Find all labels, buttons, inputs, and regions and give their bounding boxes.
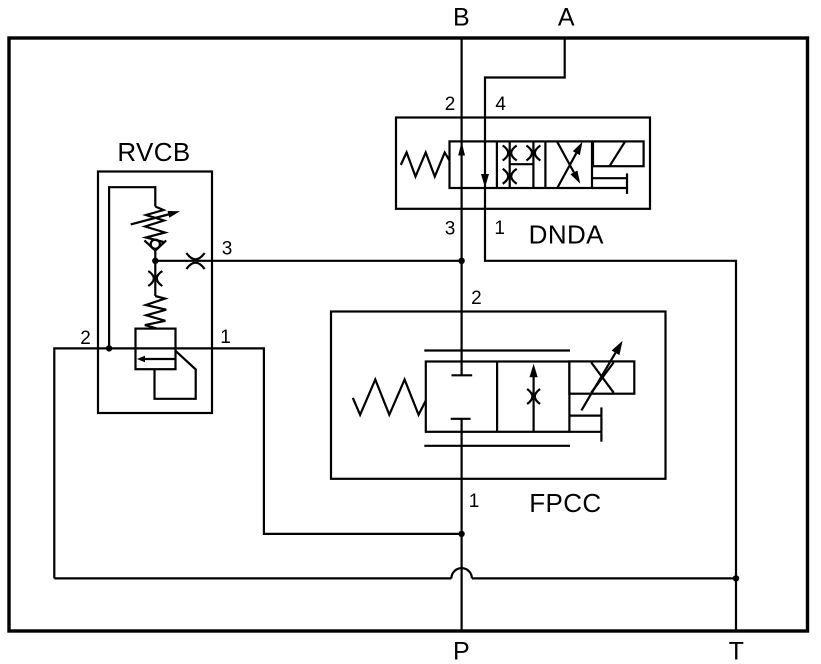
RVCB enclosure box	[98, 172, 212, 414]
svg-text:RVCB: RVCB	[117, 137, 190, 167]
arrow adjustment through spring	[131, 211, 180, 224]
orifice top left	[503, 146, 517, 161]
wire bridge crossover over P line	[451, 568, 472, 578]
valve square RVCB	[136, 329, 176, 370]
wire tank line right segment	[472, 577, 736, 579]
pilot control box	[569, 361, 634, 393]
pilot connector line	[569, 415, 601, 417]
svg-text:DNDA: DNDA	[529, 220, 605, 250]
solenoid connector bottom line	[592, 187, 627, 189]
crossed arrow ascending	[558, 142, 583, 188]
svg-text:P: P	[453, 637, 470, 664]
wire B to P vertical (upper segment)	[461, 38, 463, 375]
wire P vertical (lower segment)	[461, 419, 463, 631]
solenoid box	[593, 141, 644, 166]
flow path line left	[509, 141, 511, 188]
node junction RVCB port 2	[106, 345, 112, 351]
valve body FPCC	[426, 362, 570, 432]
orifice on wire 3	[186, 253, 204, 269]
ball check	[151, 240, 160, 249]
arrow up on B line	[458, 142, 465, 156]
flow path with arrow up	[530, 364, 538, 432]
svg-text:2: 2	[80, 328, 91, 349]
spring relief adjustable	[145, 207, 165, 243]
RVCB pilot wire L	[109, 187, 155, 348]
divider position 2	[544, 141, 546, 188]
svg-text:4: 4	[495, 94, 506, 115]
blocked port top bar	[452, 374, 473, 376]
svg-text:2: 2	[471, 288, 482, 309]
node junction on P line	[458, 531, 464, 537]
svg-text:1: 1	[220, 327, 231, 348]
proportional line top	[424, 349, 570, 351]
svg-text:3: 3	[222, 239, 233, 260]
wire A down through DNDA to T	[485, 38, 736, 631]
spring DNDA	[401, 152, 450, 176]
svg-text:1: 1	[469, 491, 480, 512]
solenoid diagonal	[610, 141, 626, 166]
orifice bottom left	[503, 169, 517, 184]
svg-text:FPCC: FPCC	[529, 488, 601, 518]
svg-text:1: 1	[494, 218, 505, 239]
divider FPCC	[496, 362, 498, 432]
svg-text:2: 2	[445, 94, 456, 115]
svg-text:A: A	[558, 4, 575, 32]
crossed lines in pilot box	[591, 362, 614, 392]
svg-text:T: T	[729, 637, 744, 664]
arrow down on A line	[481, 174, 489, 188]
spring above valve square	[145, 296, 166, 329]
orifice on flow path	[527, 389, 540, 404]
svg-text:B: B	[453, 4, 470, 32]
node junction on T line	[733, 575, 739, 581]
divider position 1	[496, 141, 498, 188]
orifice on pilot branch	[148, 271, 162, 286]
FPCC enclosure box	[331, 312, 666, 479]
solenoid connector pin bar	[626, 173, 628, 194]
pilot connector pin bar	[600, 407, 602, 441]
pilot connector bottom line	[569, 431, 601, 433]
node junction relief output	[152, 258, 158, 264]
blocked port bottom bar	[451, 418, 471, 420]
spring FPCC	[353, 380, 426, 415]
wire relief to node	[154, 250, 156, 296]
wire tank line left segment	[54, 577, 451, 579]
node junction on B line at RVCB line 3	[458, 258, 464, 264]
valve body DNDA	[450, 141, 593, 188]
svg-text:3: 3	[445, 219, 456, 240]
wire 3 from RVCB to B line	[155, 260, 461, 262]
DNDA enclosure box	[396, 118, 650, 209]
wire RVCB port 2 and port 1 loop to P	[54, 348, 461, 578]
ball seat V	[144, 240, 166, 250]
H bridge connector	[510, 163, 534, 165]
proportional line bottom	[424, 445, 570, 447]
crossed arrow descending	[557, 142, 580, 184]
solenoid connector line	[593, 177, 627, 179]
arrow adjustment through pilot box	[581, 341, 622, 411]
pilot feedback loop	[155, 351, 196, 399]
orifice top right	[526, 146, 540, 161]
flow line with arrow inside valve square	[137, 356, 176, 363]
flow path line right	[532, 141, 534, 188]
